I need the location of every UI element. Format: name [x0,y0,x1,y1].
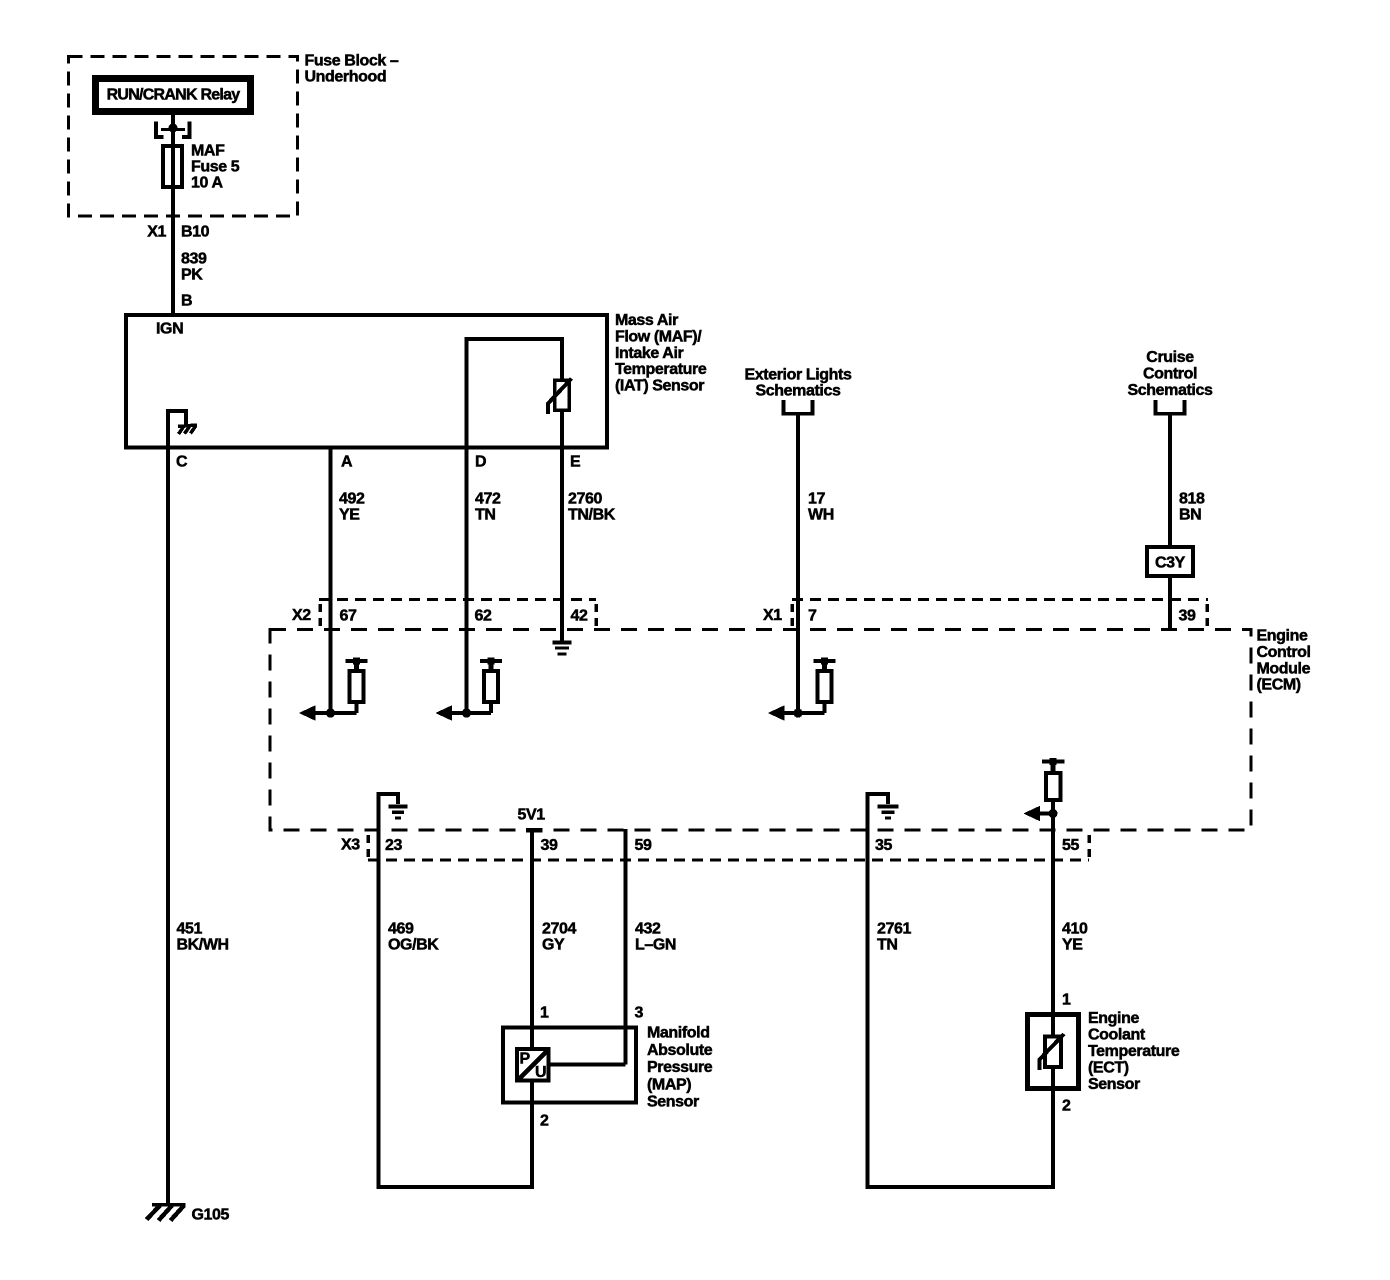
wire from IAT thermistor to pin E [560,410,564,447]
svg-text:Underhood: Underhood [305,69,387,86]
svg-text:P: P [520,1051,531,1068]
wire 2760 TN/BK from pin E to ECM X2-42 [560,447,564,643]
svg-text:G105: G105 [192,1207,230,1224]
svg-text:X3: X3 [341,837,360,854]
svg-text:TN/BK: TN/BK [568,507,616,524]
svg-text:Sensor: Sensor [647,1094,699,1111]
svg-text:X1: X1 [147,224,166,241]
svg-text:469: 469 [388,921,414,938]
svg-text:Mass Air: Mass Air [615,312,678,329]
wire 410 YE from X3-55 to ECT sensor pin 1 [1051,814,1055,1013]
IAT thermistor (variable resistor) [555,380,570,410]
chassis ground symbol inside sensor [178,425,197,427]
internal wire from pin 3 to pressure transducer [550,1063,626,1067]
svg-text:492: 492 [339,491,365,508]
MAF/IAT sensor box [126,315,607,448]
svg-text:Engine: Engine [1088,1010,1139,1027]
signal ground symbol at (562,642.5) [553,641,572,645]
internal ground wire from pin C inside sensor [168,411,186,447]
svg-text:Engine: Engine [1257,628,1308,645]
signal ground symbol at (398,806.5) [389,804,408,808]
svg-text:Temperature: Temperature [615,361,707,378]
svg-text:67: 67 [340,608,357,625]
connector row X2 dashed outline [319,598,596,601]
svg-text:IGN: IGN [156,321,183,338]
svg-text:Fuse Block –: Fuse Block – [305,53,399,70]
svg-text:C: C [176,454,188,471]
svg-text:Schematics: Schematics [1128,382,1213,399]
svg-text:35: 35 [875,837,892,854]
wire 17 WH to ECM X1-7 [796,414,800,714]
wire joining 2761 circuit to ECT pin 2 [866,1185,1054,1189]
svg-text:L–GN: L–GN [635,937,676,954]
svg-text:B: B [181,293,192,310]
svg-text:YE: YE [1062,937,1083,954]
svg-text:Exterior Lights: Exterior Lights [745,367,852,384]
svg-text:TN: TN [877,937,898,954]
svg-text:B10: B10 [181,224,210,241]
svg-text:2: 2 [540,1113,549,1130]
svg-text:Temperature: Temperature [1088,1043,1180,1060]
svg-text:39: 39 [541,837,558,854]
wire 469 OG/BK from X3-23 to MAP sensor pin 2 circuit [377,829,381,1189]
svg-text:(IAT) Sensor: (IAT) Sensor [615,377,704,394]
wire 472 TN from pin D to ECM X2-62 [465,447,469,713]
chassis ground G105 [152,1203,186,1207]
svg-text:472: 472 [475,491,501,508]
svg-text:U: U [535,1064,546,1081]
svg-text:2760: 2760 [568,491,602,508]
svg-text:Cruise: Cruise [1146,349,1194,366]
svg-text:Control: Control [1143,366,1197,383]
internal pull-up resistor at X3-55 [1042,760,1065,764]
svg-text:Sensor: Sensor [1088,1076,1140,1093]
svg-text:432: 432 [635,921,661,938]
svg-text:OG/BK: OG/BK [388,937,439,954]
svg-text:7: 7 [808,608,817,625]
wire 818 BN to connector C3Y [1168,414,1172,548]
wire from ECT thermistor to pin 2 [1051,1067,1055,1189]
internal wire from transducer to pin 2 [530,1081,534,1190]
fuse F5 MAF Fuse 5 10 A [163,146,182,187]
svg-text:Coolant: Coolant [1088,1027,1146,1044]
internal wire loop pin D to IAT thermistor [467,339,563,447]
wire 451 BK/WH from pin C to G105 [166,447,170,1203]
pressure transducer P/U symbol [517,1049,549,1081]
wire joining 469 circuit to MAP pin 2 [377,1185,533,1189]
svg-text:1: 1 [1062,992,1071,1009]
svg-text:Module: Module [1257,660,1311,677]
off-page connector symbol at x=798 [782,400,786,414]
svg-text:451: 451 [177,921,203,938]
svg-text:59: 59 [635,837,652,854]
internal ground from X3-23 [379,794,399,829]
connector C3Y box [1147,547,1193,576]
svg-text:5V1: 5V1 [518,807,546,824]
svg-text:MAF: MAF [191,143,225,160]
svg-text:23: 23 [385,837,402,854]
fuse block - underhood dashed box [69,57,298,217]
svg-text:D: D [475,454,486,471]
svg-text:818: 818 [1179,491,1205,508]
connector row X3 dashed outline [368,858,1089,861]
internal pull-up resistor at x=491 [480,659,502,663]
svg-text:E: E [570,454,581,471]
relay K1 RUN/CRANK Relay box [96,79,251,112]
svg-text:(ECT): (ECT) [1088,1059,1129,1076]
svg-text:55: 55 [1062,837,1079,854]
svg-text:Pressure: Pressure [647,1059,713,1076]
svg-text:42: 42 [571,608,588,625]
signal ground symbol at (888,806.5) [878,804,899,808]
svg-text:2704: 2704 [542,921,576,938]
svg-text:Flow (MAF)/: Flow (MAF)/ [615,329,702,346]
svg-text:62: 62 [475,608,492,625]
svg-text:Manifold: Manifold [647,1025,710,1042]
svg-text:2: 2 [1062,1098,1071,1115]
internal 5V1 supply tap at X3-39 [526,828,543,833]
wire 432 L-GN from X3-59 to MAP sensor pin 3 [624,829,628,1065]
svg-text:GY: GY [542,937,565,954]
svg-text:2761: 2761 [877,921,911,938]
svg-text:(ECM): (ECM) [1257,677,1301,694]
svg-text:3: 3 [635,1005,644,1022]
svg-text:Fuse 5: Fuse 5 [191,159,240,176]
wire 2704 GY from X3-39 5V1 to MAP sensor pin 1 [530,830,534,1048]
internal pull-up resistor at x=824.5 [814,659,836,663]
svg-text:1: 1 [540,1005,549,1022]
ECM dashed border box [270,630,1251,831]
wire 492 YE from pin A to ECM X2-67 [329,447,333,713]
off-page connector symbol at x=1170 [1154,400,1158,414]
internal ground from X3-35 [868,794,889,829]
ECT sensor box [1028,1015,1079,1089]
svg-text:BN: BN [1179,507,1201,524]
svg-text:17: 17 [808,491,825,508]
svg-text:(MAP): (MAP) [647,1076,691,1093]
svg-text:YE: YE [339,507,360,524]
svg-text:Intake Air: Intake Air [615,345,683,362]
wire from relay through fuse to IGN pin B [171,115,175,315]
wire 2761 TN from X3-35 to ECT sensor pin 2 circuit [866,829,870,1189]
svg-text:Schematics: Schematics [756,383,841,400]
svg-text:Control: Control [1257,644,1311,661]
svg-text:RUN/CRANK Relay: RUN/CRANK Relay [107,87,241,104]
svg-text:TN: TN [475,507,496,524]
svg-text:39: 39 [1179,608,1196,625]
svg-text:WH: WH [808,507,834,524]
svg-text:839: 839 [181,251,207,268]
wire through ECT sensor [1051,1012,1055,1037]
fuse block terminal connector symbol [156,122,164,137]
svg-text:BK/WH: BK/WH [177,937,229,954]
svg-text:X2: X2 [292,607,311,624]
svg-text:10 A: 10 A [191,175,223,192]
ECT thermistor (variable resistor) [1045,1037,1061,1068]
svg-text:410: 410 [1062,921,1088,938]
internal pull-up resistor at x=356.5 [346,659,368,663]
svg-text:A: A [341,454,353,471]
svg-text:C3Y: C3Y [1155,555,1186,572]
svg-text:Absolute: Absolute [647,1042,713,1059]
svg-text:PK: PK [181,267,203,284]
wire from C3Y to ECM X1-39 [1168,576,1172,630]
svg-text:X1: X1 [763,607,782,624]
MAP sensor box [503,1028,636,1103]
